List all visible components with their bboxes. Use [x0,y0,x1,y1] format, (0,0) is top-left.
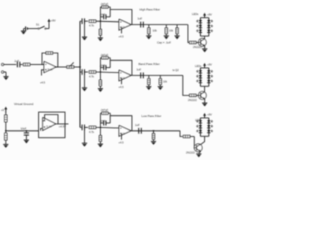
ground A row3 [82,143,87,146]
ground vref divider [3,144,8,147]
row3 drop resistor 1 [152,130,154,141]
row1 ground 2 [164,36,169,39]
svg-text:+9V: +9V [51,19,56,23]
svg-text:+4.5: +4.5 [40,80,46,84]
feedback left wire row2 [100,58,102,73]
svg-text:+9V: +9V [207,63,212,67]
vref stub row3 [119,134,125,145]
Q2 collector wire [204,86,206,91]
capacitor C out row3 [135,123,141,134]
virtual ground title [14,102,34,106]
ground A row1 [82,37,87,40]
svg-text:+9V: +9V [207,113,212,117]
feedback capacitor row2 [99,64,110,70]
series resistor row3 [89,126,96,134]
series resistor row2 [89,71,96,79]
row3 ground 1 [151,141,156,144]
feedback left wire row3 [100,113,102,128]
op-amp bandpass row1 [119,19,131,30]
capacitor input row3 [82,125,88,131]
svg-text:.1uF: .1uF [14,59,20,63]
+9V arrow vref [1,107,7,114]
svg-text:LED: LED [195,118,200,122]
wire to node row3 [96,126,119,129]
op-amp U1A buffer [44,61,56,72]
ground vref cap [24,140,29,143]
feedback left wire row1 [100,7,102,22]
wire buffer out to pot [56,66,67,68]
row2 output wire [131,74,183,76]
feedback right wire row3 [109,113,111,123]
vref node wire [5,130,39,132]
svg-text:.0047: .0047 [99,64,106,67]
row1 drop resistor 3 [176,25,178,36]
row2 drop resistor 1 [148,75,150,86]
capacitor C1 .1uF [14,59,20,68]
resistor to ground B row1 [99,21,101,37]
svg-text:TL07: TL07 [46,125,52,129]
svg-text:.047uF: .047uF [100,54,108,57]
wire pot to bus [74,66,81,68]
row title row1 [140,8,160,12]
capacitor input row1 [82,18,88,24]
feedback top wire row3 [110,116,132,131]
LED bank row1 [192,12,213,36]
svg-text:LEDs: LEDs [195,64,202,68]
svg-text:4.7k: 4.7k [89,74,95,78]
svg-text:TL07: TL07 [47,68,53,72]
svg-text:+4.5: +4.5 [119,86,125,89]
row2 base resistor [190,94,199,96]
svg-text:Cap = .1uF: Cap = .1uF [157,41,171,45]
svg-text:1uF: 1uF [135,123,140,127]
svg-text:+4.5V: +4.5V [59,124,66,128]
svg-text:LEDs: LEDs [192,12,199,16]
resistor R vref bottom [5,133,8,144]
wire to ground A row1 [84,21,86,37]
feedback capacitor row1 [99,14,110,20]
svg-text:.047uF: .047uF [100,3,108,6]
svg-text:10k: 10k [153,28,158,32]
svg-text:Virtual Ground: Virtual Ground [14,102,34,106]
wire jack to C1 [4,64,17,66]
wire bus tap row2 [80,71,81,73]
feedback right wire row2 [109,58,111,68]
svg-text:2N2222: 2N2222 [193,46,202,49]
row title row2 [139,62,160,66]
series resistor row1 [89,20,96,28]
Q1 emitter ground [202,46,207,53]
capacitor C vref [21,127,29,139]
svg-text:to Q2: to Q2 [173,69,180,72]
row1 base resistor [190,41,199,43]
svg-text:.047uF: .047uF [100,109,108,112]
row2 ground 1 [146,87,151,90]
svg-text:1uF: 1uF [138,16,143,20]
feedback top wire row1 [110,10,132,25]
svg-text:.0047: .0047 [99,14,106,17]
vref stub row2 [119,78,125,89]
feedback resistor row1 [100,3,110,8]
ground A row2 [82,88,87,91]
svg-text:.0047: .0047 [99,120,106,123]
row2 wire to base [183,75,189,95]
resistor R vref top [5,113,8,133]
transistor Q2 2N2222 [188,91,206,101]
resistor R1 [20,63,44,66]
ground at jack [3,77,8,80]
Q3 emitter ground [196,151,201,157]
feedback resistor row3 [100,109,110,114]
potentiometer VR1 level [67,62,74,68]
row1 drop resistor 1 [148,25,158,36]
resistor to ground B row2 [99,72,101,88]
capacitor C out row1 [138,16,144,27]
row3 wire right [148,130,180,132]
battery B1 9V with ground [21,26,34,34]
vref opamp feedback [41,115,58,131]
svg-text:4.7k: 4.7k [89,24,95,28]
row1 drop resistor 2 [165,25,174,36]
feedback wire left down [42,53,46,65]
capacitor input row2 [82,69,88,75]
row1 ground 1 [146,36,151,39]
svg-text:S1: S1 [36,23,40,27]
feedback wire buffer [53,53,58,67]
ground B row1 [98,38,103,41]
op-amp bandpass row3 [119,125,131,136]
op-amp U2 vref [43,117,56,130]
svg-text:4.7k: 4.7k [89,130,95,134]
ground B row2 [98,89,103,92]
svg-text:Low Pass Filter: Low Pass Filter [142,114,162,118]
svg-text:2N2222: 2N2222 [188,99,197,102]
row1 cluster label [157,41,171,45]
ground B row3 [98,144,103,147]
row1 wire to base [188,25,189,43]
svg-text:+9V: +9V [207,12,212,16]
transistor Q1 2N2222 [193,38,206,49]
Q1 collector wire [204,36,206,39]
wire to ground A row2 [84,72,86,88]
row1 ground 3 [175,36,180,39]
row3 base wire down [193,137,195,148]
svg-text:1uF: 1uF [137,68,142,72]
feedback resistor row2 [100,54,110,59]
row3 output wire [131,130,148,132]
feedback top wire row2 [110,60,132,75]
input jack J1 [1,63,6,76]
vref output wire [58,124,68,128]
feedback right wire row1 [109,7,111,17]
LED bank row2 [195,63,213,87]
row2 drop resistor 2 [159,75,168,86]
wire to node row2 [96,71,119,74]
row3 wire to base [180,131,183,137]
Q3 collector wire [201,136,205,144]
row3 net label [0,0,1,1]
row2 ground 2 [158,87,163,90]
transistor Q3 2N2222 [186,144,202,155]
wire bus tap row1 [80,20,81,22]
op-amp bandpass row2 [119,70,131,81]
svg-text:Band Pass Filter: Band Pass Filter [139,62,160,66]
svg-text:10uF: 10uF [21,127,27,130]
svg-text:2N2222: 2N2222 [186,151,195,154]
wire to ground A row3 [84,127,86,143]
svg-text:High Pass Filter: High Pass Filter [140,8,160,12]
vref stub at buffer + [40,70,46,85]
wire bus tap row3 [80,126,81,128]
svg-text:+4.5: +4.5 [119,142,125,145]
row1 output wire [131,24,188,26]
row3 base resistor [183,135,194,137]
capacitor C out row2 [137,68,144,79]
Q2 emitter ground [202,99,207,107]
vref op-amp box [39,112,65,138]
+9V supply arrow [48,19,56,29]
resistor R2 feedback [46,52,53,54]
svg-text:+4.5: +4.5 [119,35,125,38]
resistor to ground B row3 [99,127,101,143]
row2 net label [173,69,180,72]
svg-text:10k: 10k [169,28,174,32]
LED bank row3 [195,113,213,137]
row title row3 [142,114,162,118]
signal bus vertical wire [79,21,81,127]
wire to node row1 [96,20,119,23]
vref stub row1 [119,28,125,39]
feedback capacitor row3 [99,120,110,126]
switch S1 [34,23,49,30]
